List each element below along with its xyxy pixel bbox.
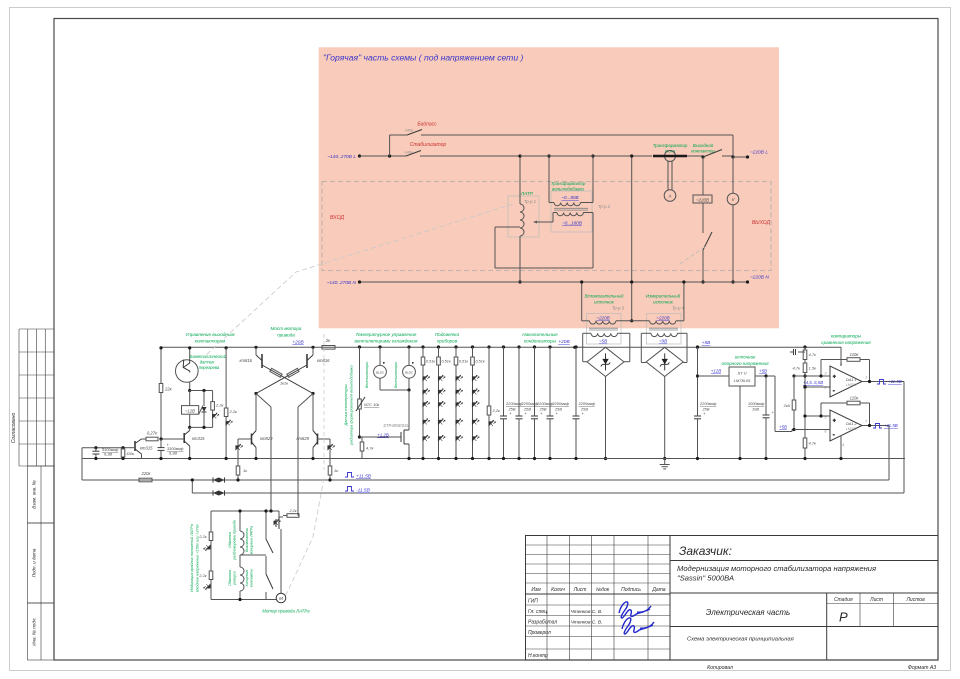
- svg-text:2,2к: 2,2к: [215, 403, 225, 408]
- node junction bypass tap: [388, 135, 391, 158]
- wire CT to contactor: [687, 155, 703, 157]
- svg-text:+5В: +5В: [759, 369, 767, 374]
- svg-text:2200мкф: 2200мкф: [536, 401, 554, 406]
- device enclosure boundary (dashed): [322, 182, 771, 271]
- svg-text:~220В: ~220В: [656, 316, 669, 321]
- svg-text:~220В L: ~220В L: [750, 150, 768, 156]
- wire +20V top rail: [161, 346, 841, 348]
- svg-text:Стабилизатор: Стабилизатор: [410, 142, 447, 148]
- resistor 1,5k divider: [793, 363, 818, 387]
- svg-text:A: A: [667, 194, 671, 199]
- mech link dashed LATR to thermal sensor: [205, 204, 513, 356]
- transistor KT829 right: [297, 394, 318, 461]
- wire fans common: [380, 388, 411, 427]
- svg-text:Обмотка: Обмотка: [228, 570, 232, 586]
- section label illumination: [435, 332, 460, 344]
- svg-text:Колич: Колич: [551, 587, 565, 593]
- svg-text:+: +: [833, 374, 836, 379]
- svg-text:~0...80В: ~0...80В: [561, 195, 578, 200]
- contactor coil box ~220V: [693, 157, 712, 233]
- wire bridge1 minus to bus: [604, 377, 607, 461]
- svg-text:привода: привода: [277, 333, 295, 338]
- wire pin6: [794, 429, 830, 431]
- label +20V left: [292, 340, 304, 346]
- mech link dashed motor to LATR: [285, 478, 324, 597]
- svg-text:Тр-р 3: Тр-р 3: [612, 306, 625, 311]
- svg-text:2,2к: 2,2к: [492, 408, 502, 413]
- svg-text:~0...180В: ~0...180В: [562, 221, 582, 226]
- hot mains zone background: [319, 47, 779, 328]
- svg-text:0,51к: 0,51к: [426, 360, 435, 364]
- node input N terminal -140..270V N: [327, 280, 357, 286]
- svg-text:Разработал: Разработал: [528, 620, 557, 626]
- section label storage caps: [522, 332, 558, 344]
- svg-text:4: 4: [842, 443, 844, 447]
- section label motor bridge: [271, 326, 302, 338]
- resistor 2,2k + LED relay indicator: [211, 391, 225, 428]
- thermal cutout sensor: [176, 346, 227, 390]
- resistor 110k feedback DA1.1: [819, 352, 869, 382]
- svg-text:Стадия: Стадия: [834, 597, 853, 603]
- svg-text:Байпасс: Байпасс: [417, 121, 437, 128]
- transistor KT816 right: [307, 346, 330, 368]
- footer Format A3: [908, 665, 936, 671]
- svg-text:Биметаллический: Биметаллический: [190, 354, 227, 359]
- svg-text:Выходной: Выходной: [693, 143, 714, 148]
- resistor 0,27k base: [142, 431, 185, 441]
- svg-text:~12В: ~12В: [185, 408, 195, 413]
- svg-text:Управление выходным: Управление выходным: [185, 332, 235, 337]
- svg-text:1,5к: 1,5к: [809, 366, 818, 371]
- svg-text:4,7к: 4,7к: [366, 446, 375, 451]
- stage header: [834, 597, 925, 603]
- svg-text:Индикация крайних положений ЛА: Индикация крайних положений ЛАТРа: [190, 524, 194, 592]
- wire DA1.2 gnd pin4: [839, 436, 842, 461]
- wire left edge: [81, 448, 83, 480]
- transformer Tr-r 4 (measuring supply): [632, 280, 687, 362]
- current transformer (Трансформатор тока): [653, 143, 688, 190]
- signature 1: [619, 602, 651, 618]
- ammeter A: [664, 190, 676, 202]
- LED column 1 resistor 0,51k + 5 LEDs: [421, 345, 435, 460]
- svg-text:Температурное управление: Температурное управление: [356, 332, 417, 337]
- thermistor NTC 10k: [356, 345, 379, 437]
- svg-text:Гл. спец.: Гл. спец.: [528, 609, 548, 615]
- capacitor 1000uF 10V: [748, 374, 775, 460]
- ground symbol: [660, 459, 670, 469]
- svg-text:Формат А3: Формат А3: [908, 665, 936, 671]
- svg-text:LM393: LM393: [846, 383, 856, 387]
- svg-text:25В: 25В: [508, 407, 516, 412]
- svg-text:Чтенков С. В.: Чтенков С. В.: [571, 620, 603, 626]
- svg-text:~220В N: ~220В N: [750, 275, 769, 281]
- switch stabilizer (Стабилизатор): [405, 142, 520, 156]
- relay coil release winding: [228, 509, 244, 560]
- resistor 220k on line2: [139, 471, 152, 482]
- doc type: [687, 637, 794, 643]
- wire to inverting input DA1.1: [803, 385, 830, 388]
- svg-text:2200мкф: 2200мкф: [699, 401, 717, 406]
- contactor main contact (Выходной контактор): [691, 143, 733, 159]
- svg-text:0,27к: 0,27к: [147, 431, 158, 436]
- svg-text:ГИП: ГИП: [528, 599, 538, 605]
- LED column 3 resistor 0,51k + 5 LEDs: [454, 345, 468, 460]
- svg-text:+4,5..5,5В: +4,5..5,5В: [803, 380, 823, 385]
- switch bypass (Байпасс): [390, 121, 733, 136]
- capacitor 2200uF 25V #5: [573, 345, 596, 460]
- svg-text:NTC 10к: NTC 10к: [364, 402, 379, 407]
- svg-text:Согласовано: Согласовано: [11, 413, 17, 444]
- svg-text:ВХОД: ВХОД: [330, 215, 344, 221]
- svg-text:ВЫХОД: ВЫХОД: [752, 220, 771, 226]
- relay coil reverse winding: [228, 555, 244, 600]
- svg-text:кт816: кт816: [240, 358, 253, 363]
- label motor: [262, 609, 310, 614]
- svg-text:6,3В: 6,3В: [169, 451, 177, 456]
- transformer Tr-r 3 (aux supply): [580, 280, 632, 361]
- svg-text:сравнения напряжения: сравнения напряжения: [821, 340, 871, 345]
- svg-text:Выключатели: Выключатели: [245, 528, 249, 552]
- svg-text:источник: источник: [735, 355, 756, 360]
- svg-text:Входное напряжение <150v или: Входное напряжение <150v или >270v: [196, 523, 200, 592]
- svg-text:реверса: реверса: [233, 571, 237, 586]
- wire volt-add loop: [495, 213, 593, 269]
- svg-text:0,51к: 0,51к: [459, 360, 468, 364]
- transistor KT315 relay driver: [184, 427, 205, 460]
- limit switch upper: [240, 509, 273, 557]
- capacitor 2200uF right: [694, 345, 717, 460]
- svg-text:ЛАТР: ЛАТР: [520, 191, 534, 197]
- svg-text:~220В: ~220В: [596, 316, 609, 321]
- svg-text:110к: 110к: [126, 451, 134, 456]
- svg-text:~220В: ~220В: [696, 198, 709, 203]
- capacitor 3300uF input: [82, 446, 123, 460]
- wire DA1.1 output down to line3: [903, 382, 905, 494]
- svg-text:DA1.2: DA1.2: [846, 422, 857, 426]
- wire cluster top bus: [211, 509, 279, 512]
- svg-text:22к: 22к: [164, 387, 173, 392]
- voltmeter V: [727, 157, 739, 284]
- svg-text:+5В: +5В: [702, 340, 711, 346]
- svg-text:Заказчик:: Заказчик:: [679, 544, 732, 558]
- wire L to CT: [520, 155, 652, 157]
- svg-text:1000мкф: 1000мкф: [748, 401, 765, 406]
- svg-text:М: М: [279, 596, 283, 601]
- svg-text:2200мкф: 2200мкф: [578, 401, 596, 406]
- label +4,5..5,5V: [803, 380, 823, 385]
- diode across relay: [202, 389, 207, 429]
- svg-text:Взам. инв. №: Взам. инв. №: [32, 480, 37, 508]
- svg-text:2200мкф: 2200мкф: [505, 401, 523, 406]
- svg-text:Изм: Изм: [531, 587, 541, 593]
- label +5V: [696, 340, 711, 349]
- svg-text:источник: источник: [594, 300, 615, 305]
- wire bridge2 minus to bus: [663, 377, 666, 461]
- title roles column: [528, 599, 557, 660]
- resistor 110k feedback DA1.2: [819, 396, 869, 426]
- svg-text:"Sassin" 5000ВА: "Sassin" 5000ВА: [677, 574, 734, 583]
- capacitor 2200uF 25V #2: [516, 345, 539, 460]
- svg-text:Электрическая часть: Электрическая часть: [706, 608, 791, 617]
- indicator branch 2,2k + LED: [487, 345, 501, 460]
- svg-text:4,7к: 4,7к: [793, 366, 802, 371]
- wire regulator ground: [738, 386, 741, 460]
- wire DA1.1 output: [862, 380, 904, 383]
- section label reference source: [721, 355, 769, 367]
- svg-text:источник: источник: [653, 300, 674, 305]
- LED column 2 resistor 0,51k + 5 LEDs: [437, 345, 451, 460]
- svg-text:Листов: Листов: [905, 597, 925, 603]
- MOSFET motor switch + resistor 2,2k + LED: [274, 509, 299, 536]
- svg-text:BLDC: BLDC: [376, 370, 385, 374]
- svg-text:Датчик температуры: Датчик температуры: [344, 384, 348, 426]
- wire aux supply feed L: [630, 154, 633, 322]
- transistor KT816 left: [240, 346, 263, 368]
- wire motor drive left branch: [256, 394, 271, 512]
- resistor 110k: [121, 446, 134, 460]
- capacitor filter small: [790, 349, 805, 355]
- svg-text:кт816: кт816: [317, 358, 330, 363]
- svg-text:разблокировки привода: разблокировки привода: [233, 520, 237, 561]
- svg-text:Тр-р 2: Тр-р 2: [598, 204, 611, 209]
- svg-text:25В: 25В: [554, 407, 562, 412]
- wire DA1.1 Vcc pin8: [840, 347, 842, 366]
- svg-text:Вентиляторы: Вентиляторы: [394, 362, 398, 389]
- svg-text:вентиляторами охлаждения: вентиляторами охлаждения: [355, 339, 418, 344]
- wire DA1.2 output down to line2: [888, 426, 890, 481]
- svg-text:+20В: +20В: [292, 340, 304, 346]
- title block outline: [526, 536, 939, 661]
- resistor 4,7k bottom: [803, 385, 817, 460]
- sensor label vertical: [344, 364, 354, 445]
- contactor aux contact: [701, 232, 712, 284]
- svg-text:перегрева: перегрева: [199, 365, 220, 370]
- relay coil ~12V: [182, 389, 213, 429]
- svg-text:Накопительные: Накопительные: [522, 332, 558, 337]
- resistor 2,2k indicator 1 + LED: [198, 511, 212, 557]
- svg-text:контакты: контакты: [250, 569, 254, 587]
- node output N terminal ~220V N: [746, 275, 769, 284]
- fan 2: [394, 345, 415, 390]
- svg-text:10В: 10В: [752, 407, 759, 412]
- op-amp DA1.1 LM393: [823, 362, 867, 397]
- svg-text:Мост мотора: Мост мотора: [271, 326, 302, 331]
- resistor 2k0: [783, 376, 796, 431]
- svg-text:+11.5В: +11.5В: [356, 474, 372, 480]
- capacitor 2200uF 25V #1: [500, 345, 523, 460]
- transistor KT315 input: [123, 439, 153, 459]
- svg-text:1: 1: [865, 376, 867, 380]
- svg-text:+12В: +12В: [711, 369, 721, 374]
- wire DA1.2 output: [862, 424, 889, 427]
- variac LATR Tr-r 1: [508, 154, 553, 282]
- names: [571, 609, 603, 626]
- svg-text:концевые ЛАТРа: концевые ЛАТРа: [250, 526, 254, 554]
- transistor KT829 left: [252, 394, 274, 461]
- wire pin5: [803, 414, 830, 417]
- svg-text:Подсветка: Подсветка: [435, 332, 460, 337]
- svg-text:приборов: приборов: [437, 339, 458, 344]
- svg-text:Тр-р 1: Тр-р 1: [524, 199, 536, 204]
- svg-text:с40а: с40а: [405, 129, 413, 133]
- svg-text:контактор: контактор: [691, 149, 715, 154]
- svg-text:вольтодобавки: вольтодобавки: [552, 187, 585, 192]
- svg-text:Подп. и дата: Подп. и дата: [32, 548, 37, 577]
- svg-text:2,2к: 2,2к: [198, 535, 206, 539]
- label +20V right: [558, 339, 576, 349]
- MOSFET STP40NE03L fan driver: [358, 423, 411, 460]
- footer Kopiroval: [707, 665, 733, 671]
- svg-text:Тр-р 4: Тр-р 4: [672, 306, 685, 311]
- svg-text:2,2к: 2,2к: [198, 574, 206, 578]
- svg-text:4,7к: 4,7к: [809, 441, 818, 446]
- wire +5V feed: [775, 376, 794, 432]
- svg-text:Вентиляторы: Вентиляторы: [365, 362, 369, 389]
- svg-text:+11.5В: +11.5В: [884, 423, 898, 428]
- resistor 4,7k gate pulldown: [360, 437, 374, 459]
- diode pair on line2: [213, 477, 225, 482]
- svg-text:Дата: Дата: [651, 587, 665, 593]
- svg-text:Измерительный: Измерительный: [646, 294, 681, 299]
- diode pair on line3: [213, 490, 225, 495]
- section label contactor control: [185, 332, 235, 344]
- svg-text:Мотор привода ЛАТРа: Мотор привода ЛАТРа: [262, 609, 310, 614]
- svg-text:~9В: ~9В: [659, 339, 667, 344]
- svg-text:кт315: кт315: [140, 446, 153, 451]
- svg-text:0,51к: 0,51к: [442, 360, 451, 364]
- node motor bridge left: [254, 392, 257, 395]
- svg-text:№док: №док: [596, 587, 610, 593]
- svg-text:Проверил: Проверил: [528, 630, 551, 636]
- svg-text:кт315: кт315: [192, 436, 205, 441]
- svg-text:2200мкф: 2200мкф: [552, 401, 570, 406]
- section label comparators: [821, 334, 871, 346]
- svg-text:25В: 25В: [702, 407, 710, 412]
- regulator ST LM78L05: [696, 367, 775, 386]
- svg-text:Лист: Лист: [869, 597, 883, 603]
- pulse label -11.5V on line3: [345, 487, 371, 494]
- resistor 4,7k divider top: [803, 345, 817, 363]
- svg-text:110к: 110к: [850, 352, 860, 357]
- svg-text:+11.5В: +11.5В: [888, 379, 902, 384]
- svg-text:25В: 25В: [580, 407, 588, 412]
- svg-text:+20В: +20В: [558, 339, 570, 345]
- resistor 22k rail dropper: [159, 346, 172, 439]
- resistor 2,2k indicator 2 + LED: [198, 557, 212, 600]
- svg-text:Схема электрическая принципиал: Схема электрическая принципиальная: [687, 637, 794, 643]
- svg-text:2к: 2к: [325, 338, 331, 343]
- bridge rectifier VD2 (meas supply): [641, 347, 687, 376]
- svg-text:BLDC: BLDC: [405, 370, 414, 374]
- svg-text:+5В: +5В: [779, 425, 787, 430]
- margin box Podp i data: [28, 523, 55, 603]
- svg-text:Лист: Лист: [573, 587, 587, 593]
- svg-text:Копировал: Копировал: [707, 665, 733, 671]
- signature 2: [622, 618, 654, 634]
- bridge rectifier VD1 (aux supply): [583, 347, 630, 376]
- stage letter P: [839, 610, 848, 625]
- customer field: [679, 544, 732, 558]
- pulse label +11.5V DA1.2: [873, 423, 898, 428]
- svg-text:25В: 25В: [539, 407, 547, 412]
- wire N bus: [358, 280, 748, 283]
- svg-text:датчик: датчик: [200, 360, 216, 365]
- LED base left with resistor 1k: [236, 439, 252, 482]
- wire input L: [360, 155, 407, 157]
- svg-text:25В: 25В: [523, 407, 531, 412]
- svg-text:STP40NE03L: STP40NE03L: [383, 423, 409, 428]
- wire bottom common bus: [82, 458, 905, 460]
- svg-text:6,3В: 6,3В: [104, 452, 112, 457]
- label VHOD (input): [330, 215, 344, 221]
- hot zone title: [323, 53, 524, 63]
- node motor bridge right: [311, 392, 314, 395]
- capacitor 3300uF base: [158, 439, 185, 460]
- svg-text:~140..270В L: ~140..270В L: [327, 154, 356, 160]
- wire motor feed: [280, 536, 282, 593]
- mech link dashed contactor: [680, 246, 706, 264]
- resistor 1k cross right: [256, 365, 307, 394]
- wire feedback line 3: [191, 478, 904, 493]
- node output L terminal ~220V L: [733, 150, 768, 159]
- wire bypass corner to L node: [731, 135, 734, 159]
- wire pin3 input: [792, 374, 830, 377]
- svg-text:Н.контр: Н.контр: [528, 653, 548, 659]
- wire LATR bottom to N: [518, 280, 521, 283]
- label Soglasovano: [11, 413, 17, 444]
- svg-text:2к0: 2к0: [783, 403, 791, 408]
- capacitor 2200uF 25V #4: [547, 345, 570, 460]
- svg-text:2200мкф: 2200мкф: [521, 401, 539, 406]
- op-amp DA1.2 LM393: [824, 410, 868, 447]
- title header row texts: [531, 587, 665, 593]
- margin box Inv N podl: [28, 603, 55, 660]
- label VYHOD (output): [752, 220, 771, 226]
- svg-text:0,51к: 0,51к: [476, 360, 485, 364]
- svg-text:Концевые: Концевые: [245, 570, 249, 587]
- capacitor 2200uF 25V #3: [531, 345, 554, 460]
- svg-text:"Горячая" часть схемы ( под на: "Горячая" часть схемы ( под напряжением …: [323, 53, 524, 63]
- svg-text:радиатора формирователя вольто: радиатора формирователя вольтодобавки: [350, 364, 354, 445]
- svg-text:220к: 220к: [141, 471, 152, 476]
- resistor 1k cross left: [262, 365, 313, 394]
- svg-text:4,7к: 4,7к: [809, 352, 818, 357]
- svg-text:Чтенков С. В.: Чтенков С. В.: [571, 609, 603, 615]
- pulse label +11.5V DA1.1: [877, 379, 902, 384]
- svg-text:Р: Р: [839, 610, 848, 625]
- label LATR limit indication (vertical): [190, 523, 200, 592]
- svg-text:Инв. № подл.: Инв. № подл.: [32, 617, 37, 646]
- svg-text:Обмотка: Обмотка: [228, 532, 232, 548]
- motor M (LATR drive): [211, 593, 286, 603]
- resistor 2k on rail: [322, 338, 335, 349]
- svg-text:+: +: [833, 418, 836, 423]
- svg-text:2,2к: 2,2к: [229, 409, 239, 414]
- svg-text:опорного напряжения: опорного напряжения: [721, 361, 769, 366]
- LED base right with resistor 1k: [318, 439, 340, 482]
- svg-text:Модернизация моторного стабили: Модернизация моторного стабилизатора нап…: [677, 564, 876, 573]
- svg-text:2,2к: 2,2к: [288, 509, 296, 513]
- svg-text:Трансформатор: Трансформатор: [653, 143, 688, 148]
- limit switch lower: [245, 557, 273, 600]
- LED column 4 resistor 0,51k + 5 LEDs: [471, 345, 485, 460]
- margin box Vzam inv: [28, 466, 55, 523]
- project name: [677, 564, 876, 583]
- resistor 2,2k + LED overheat indicator: [224, 346, 238, 460]
- transformer Tr-r 2 (volt-add): [547, 154, 610, 232]
- svg-text:Подпись: Подпись: [621, 587, 641, 593]
- svg-text:~5В: ~5В: [599, 339, 607, 344]
